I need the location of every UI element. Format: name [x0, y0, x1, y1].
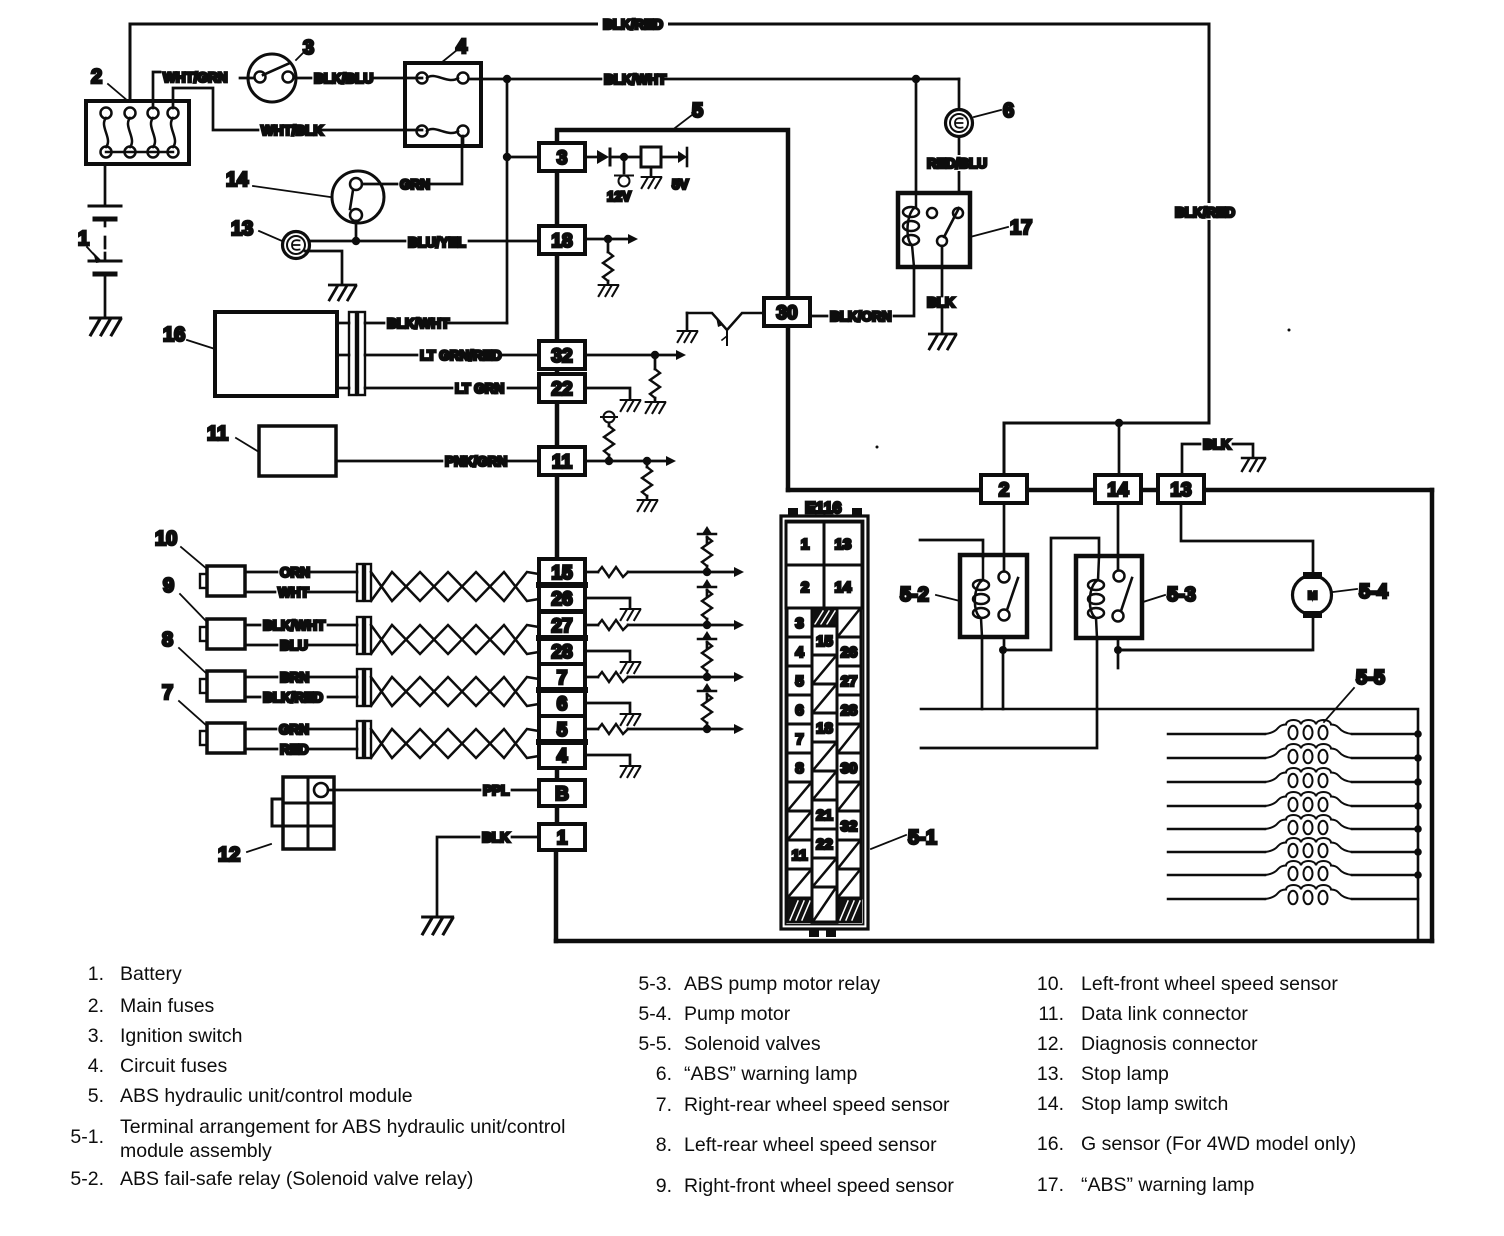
- svg-text:“ABS” warning lamp: “ABS” warning lamp: [1081, 1174, 1255, 1196]
- svg-text:14: 14: [835, 579, 852, 596]
- left-rear wheel speed sensor 8: [200, 671, 245, 701]
- label 14 with leader: [226, 169, 330, 197]
- label BLK/RED (right vertical wire): [1172, 203, 1238, 220]
- label 8 with leader: [162, 629, 207, 674]
- svg-text:6: 6: [1003, 100, 1014, 122]
- svg-text:WHT/BLK: WHT/BLK: [261, 123, 323, 138]
- svg-text:14: 14: [226, 169, 249, 191]
- inline connector (sensor 10): [357, 564, 371, 601]
- wire BLK/WHT main feed with junctions: [469, 75, 959, 83]
- svg-text:BLK: BLK: [1203, 437, 1231, 452]
- pin 22 (G sensor LT GRN): [539, 374, 585, 402]
- 5V output arrow: [661, 148, 687, 166]
- ABS fail-safe relay 5-2: [960, 555, 1027, 637]
- svg-text:5.: 5.: [88, 1085, 104, 1107]
- svg-text:6.: 6.: [656, 1063, 672, 1085]
- svg-text:BLK/RED: BLK/RED: [263, 690, 323, 705]
- wire GRN from switch 14 to circuit fuse: [362, 137, 462, 184]
- svg-text:11: 11: [552, 452, 573, 473]
- svg-text:3: 3: [557, 148, 568, 169]
- svg-text:BLK/WHT: BLK/WHT: [604, 72, 667, 87]
- svg-text:B: B: [555, 784, 569, 805]
- label 17 with leader: [970, 217, 1032, 239]
- svg-text:26: 26: [841, 644, 858, 661]
- svg-text:Right-rear wheel speed sensor: Right-rear wheel speed sensor: [684, 1094, 950, 1116]
- svg-text:14: 14: [1107, 480, 1129, 501]
- relay 5-3 switch output junction with stub: [1114, 638, 1311, 668]
- svg-text:5: 5: [795, 673, 803, 690]
- wire GRN (sensor 7 +): [245, 728, 357, 731]
- svg-text:Solenoid valves: Solenoid valves: [684, 1033, 821, 1055]
- svg-text:1: 1: [801, 536, 809, 553]
- pin pair 15/26 left-front wheel speed sensor input: [539, 559, 585, 611]
- label 5-3 with leader: [1143, 584, 1196, 606]
- svg-text:5-4: 5-4: [1359, 581, 1389, 603]
- label 11 with leader: [207, 423, 259, 452]
- wire pin 13 to pump motor: [1181, 505, 1313, 573]
- svg-text:7.: 7.: [656, 1094, 672, 1116]
- svg-text:BLK/WHT: BLK/WHT: [387, 316, 450, 331]
- svg-text:Circuit fuses: Circuit fuses: [120, 1055, 228, 1077]
- E116 cell col3 row 2 (26): [837, 637, 861, 666]
- E116 cell col3 row 1 (/): [837, 608, 861, 637]
- solenoid valve coil 4: [1168, 805, 1418, 808]
- stray scan dot: [876, 446, 879, 449]
- svg-text:ABS hydraulic unit/control mod: ABS hydraulic unit/control module: [120, 1085, 413, 1107]
- wire vertical feed to pin 3 and G sensor line: [503, 79, 539, 323]
- svg-text:3: 3: [795, 615, 803, 632]
- ground at pin 32 resistor: [646, 402, 666, 413]
- ground branch of stop lamp 13: [305, 251, 342, 284]
- E116 cell col1 row 6 (8): [787, 753, 812, 782]
- E116 cell col3 row 5 (/): [837, 724, 861, 753]
- svg-text:Data link connector: Data link connector: [1081, 1003, 1248, 1025]
- wire from switch 14 down to BLU/YEL node: [352, 221, 360, 245]
- ground return for pin 26: [585, 598, 630, 608]
- junction solenoid row 7: [1414, 871, 1422, 879]
- svg-text:8: 8: [162, 629, 173, 651]
- pin 3 (module IG feed): [539, 143, 585, 171]
- E116 cell col2 row 9 (/): [812, 858, 837, 887]
- pull-down resistor at pin 11: [646, 461, 649, 467]
- svg-text:M: M: [1308, 590, 1317, 602]
- svg-text:13.: 13.: [1037, 1063, 1064, 1085]
- inline connector (sensor 7): [357, 721, 371, 758]
- internal sensing resistor network for pins 15/26: [585, 571, 598, 574]
- svg-text:7: 7: [162, 682, 173, 704]
- wire BLK from pin 1 to ground: [437, 837, 539, 916]
- solenoid valve coil 8: [1168, 898, 1418, 901]
- label 1 with arrow leader: [78, 228, 103, 263]
- svg-text:WHT/GRN: WHT/GRN: [163, 70, 228, 85]
- svg-text:Right-front wheel speed sensor: Right-front wheel speed sensor: [684, 1175, 954, 1197]
- ignition switch 3: [240, 54, 296, 102]
- svg-text:12.: 12.: [1037, 1033, 1064, 1055]
- svg-text:13: 13: [231, 218, 253, 240]
- solenoid valve coil 5: [1168, 828, 1418, 831]
- junction solenoid row 5: [1414, 825, 1422, 833]
- relay 5-2 switch output junction: [999, 538, 1099, 709]
- ground at pin 18 resistor: [607, 281, 610, 284]
- pin 1 (module ground): [539, 824, 585, 850]
- pin 2 (fail-safe relay feed): [981, 475, 1027, 503]
- svg-text:9.: 9.: [656, 1175, 672, 1197]
- terminal arrangement E116 (5-1): [781, 500, 868, 937]
- wire WHT/GRN from fuse 3: [153, 72, 160, 101]
- wire BLK/WHT from G sensor: [337, 322, 507, 325]
- pin pair 27/28 right-front wheel speed sensor input: [539, 612, 585, 664]
- stop lamp switch 14: [332, 171, 384, 223]
- E116 cell col2 top hatch: [812, 608, 837, 626]
- svg-text:26: 26: [551, 589, 572, 610]
- label 5 with leader: [675, 100, 703, 128]
- svg-text:BLK/RED: BLK/RED: [1175, 205, 1235, 220]
- wire BLK/ORN pin 30 to ABS warning relay coil: [810, 267, 914, 316]
- twisted pair wires (sensor 9): [371, 625, 539, 654]
- ground symbol (pin 1 BLK wire): [423, 917, 453, 934]
- svg-text:4.: 4.: [88, 1055, 104, 1077]
- svg-text:12V: 12V: [607, 189, 631, 204]
- svg-text:Main fuses: Main fuses: [120, 995, 215, 1017]
- svg-text:5-2.: 5-2.: [70, 1168, 104, 1190]
- solenoid valve block bus: [921, 709, 1418, 941]
- solenoid valve coil 2: [1168, 757, 1418, 760]
- ground return for pin 28: [585, 651, 630, 661]
- svg-text:2: 2: [91, 66, 102, 88]
- solenoid valve coil 1: [1168, 733, 1418, 736]
- twisted pair wires (sensor 10): [371, 572, 539, 601]
- E116 cell col3 row 9 (/): [837, 840, 861, 869]
- svg-text:RED/BLU: RED/BLU: [927, 156, 987, 171]
- label 9 with leader: [163, 575, 207, 622]
- inline connector (sensor 8): [357, 669, 371, 706]
- E116 cell col1 row 5 (7): [787, 724, 812, 753]
- E116 cell col3 row 7 (/): [837, 782, 861, 811]
- E116 cell col2 row 10 (/): [812, 887, 837, 922]
- pin 22 internal wire to ground: [585, 388, 630, 399]
- svg-text:22: 22: [816, 836, 833, 853]
- ABS warning lamp relay 17: [898, 193, 970, 267]
- 12V supply tap node: [615, 157, 633, 187]
- internal sensing resistor network for pins 27/28: [585, 624, 598, 627]
- supply tap above pin 11 pull-up: [601, 412, 617, 427]
- wire BRN (sensor 8 +): [245, 676, 357, 679]
- pin 18 (stop lamp sw input): [539, 226, 585, 254]
- wire BLK/WHT (sensor 9 +): [245, 624, 357, 627]
- wire BLK with ground at pin 13: [1182, 444, 1253, 475]
- svg-text:Ignition switch: Ignition switch: [120, 1025, 242, 1047]
- E116 cell col3 row 10 (/): [837, 869, 861, 898]
- svg-text:27: 27: [551, 616, 572, 637]
- E116 cell col3 row 3 (27): [837, 666, 861, 695]
- svg-text:GRN: GRN: [279, 722, 309, 737]
- wire BLK/WHT branch down to relay 17: [915, 79, 918, 193]
- svg-text:ABS pump motor relay: ABS pump motor relay: [684, 973, 880, 995]
- svg-text:10: 10: [155, 528, 177, 550]
- E116 cell col1 row 8 (/): [787, 811, 812, 840]
- svg-text:Left-rear wheel speed sensor: Left-rear wheel speed sensor: [684, 1134, 937, 1156]
- svg-text:6: 6: [795, 702, 803, 719]
- svg-text:Pump motor: Pump motor: [684, 1003, 791, 1025]
- inline connector at G sensor: [349, 312, 365, 395]
- pump motor 5-4: [1293, 572, 1332, 618]
- label 5-1 with leader: [871, 827, 937, 849]
- svg-text:RED: RED: [280, 742, 309, 757]
- svg-text:28: 28: [841, 702, 858, 719]
- svg-text:1: 1: [557, 828, 568, 849]
- supply bar above resistor (7): [698, 631, 716, 639]
- svg-text:PNK/GRN: PNK/GRN: [445, 454, 507, 469]
- E116 cell col1 row 4 (6): [787, 695, 812, 724]
- wire to ABS warning lamp 6: [958, 79, 961, 193]
- E116 cell col2 row 6 (/): [812, 771, 837, 800]
- wire ORN (sensor 10 +): [245, 571, 357, 574]
- left-front wheel speed sensor 10: [200, 566, 245, 596]
- svg-text:“ABS” warning lamp: “ABS” warning lamp: [684, 1063, 858, 1085]
- wire BLK/BLU ignition to circuit fuses: [294, 77, 422, 80]
- svg-text:6: 6: [557, 694, 568, 715]
- stray scan dot: [1288, 329, 1291, 332]
- E116 cell col1 row 3 (5): [787, 666, 812, 695]
- svg-text:Stop lamp: Stop lamp: [1081, 1063, 1169, 1085]
- svg-text:11: 11: [207, 423, 228, 445]
- solenoid valve coil 3: [1168, 781, 1418, 784]
- svg-text:4: 4: [456, 36, 468, 58]
- label 12 with leader: [218, 844, 271, 866]
- E116 cell col3 row 8 (32): [837, 811, 861, 840]
- label RED/BLU: [925, 155, 987, 171]
- E116 cell col2 row 2 (/): [812, 655, 837, 684]
- pump motor return wire: [1122, 618, 1313, 650]
- svg-text:5: 5: [692, 100, 703, 122]
- svg-text:2.: 2.: [88, 995, 104, 1017]
- svg-text:5-1: 5-1: [908, 827, 937, 849]
- svg-text:3: 3: [303, 37, 314, 59]
- svg-text:27: 27: [841, 673, 858, 690]
- svg-text:4: 4: [557, 746, 568, 767]
- svg-text:4: 4: [795, 644, 804, 661]
- data link connector 11 box: [259, 426, 336, 476]
- svg-text:3.: 3.: [88, 1025, 104, 1047]
- svg-text:17: 17: [1010, 217, 1032, 239]
- svg-text:BLK/WHT: BLK/WHT: [263, 618, 326, 633]
- solenoid valve coil 6: [1168, 851, 1418, 854]
- svg-text:Stop lamp switch: Stop lamp switch: [1081, 1093, 1228, 1115]
- junction solenoid row 1: [1414, 730, 1422, 738]
- svg-text:BLU/YEL: BLU/YEL: [408, 235, 466, 250]
- svg-text:5-2: 5-2: [900, 584, 929, 606]
- E116 cell col3 row 11 (H): [837, 898, 861, 922]
- E116 cell col2 row 5 (/): [812, 742, 837, 771]
- ground at transistor emitter: [678, 331, 698, 342]
- svg-text:BRN: BRN: [280, 670, 309, 685]
- svg-text:11.: 11.: [1038, 1003, 1064, 1025]
- wire pin 14 down to pump motor relay switch: [1117, 505, 1120, 570]
- wire LT GRN/RED from G sensor to pin 32: [337, 354, 539, 357]
- svg-text:11: 11: [792, 847, 808, 864]
- svg-text:18: 18: [816, 720, 833, 737]
- svg-text:21: 21: [816, 807, 833, 824]
- wire LT GRN from G sensor to pin 22: [337, 387, 539, 390]
- svg-text:G sensor (For 4WD model only): G sensor (For 4WD model only): [1081, 1133, 1356, 1155]
- pin B (diagnosis PPL): [539, 780, 585, 806]
- svg-text:ABS fail-safe relay (Solenoid: ABS fail-safe relay (Solenoid valve rela…: [120, 1168, 473, 1190]
- label 10 with leader: [155, 528, 207, 569]
- svg-text:17.: 17.: [1037, 1174, 1064, 1196]
- svg-text:9: 9: [163, 575, 174, 597]
- svg-text:32: 32: [551, 346, 572, 367]
- coil feed wire for relay 5-2: [920, 540, 983, 557]
- svg-text:LT GRN: LT GRN: [455, 381, 504, 396]
- E116 cell col1 row 10 (/): [787, 869, 812, 898]
- diode at pin 3 output: [585, 149, 641, 165]
- pin 18 internal node with resistor to ground: [585, 234, 638, 252]
- svg-text:Left-front wheel speed sensor: Left-front wheel speed sensor: [1081, 973, 1338, 995]
- E116 cell col1 row 11 (H): [787, 898, 812, 922]
- E116 cell col2 row 1 (15): [812, 626, 837, 655]
- svg-text:32: 32: [841, 818, 858, 835]
- inline connector (sensor 9): [357, 617, 371, 654]
- svg-text:5V: 5V: [672, 177, 689, 192]
- svg-text:5-3.: 5-3.: [638, 973, 672, 995]
- E116 cell col2 row 7 (21): [812, 800, 837, 829]
- svg-text:LT GRN/RED: LT GRN/RED: [420, 348, 502, 363]
- svg-text:5-1.: 5-1.: [70, 1126, 104, 1148]
- label 16 with leader: [163, 324, 215, 349]
- solenoid valve coil 7: [1168, 874, 1418, 877]
- svg-text:13: 13: [835, 536, 852, 553]
- wire pin 1 down to module bottom edge: [555, 850, 558, 941]
- svg-text:BLK/ORN: BLK/ORN: [830, 309, 892, 324]
- ABS pump motor relay 5-3: [1076, 556, 1142, 638]
- svg-text:BLK/RED: BLK/RED: [603, 17, 663, 32]
- label 6 with leader: [974, 100, 1014, 122]
- svg-text:7: 7: [795, 731, 803, 748]
- svg-text:BLK: BLK: [482, 830, 510, 845]
- ground symbol (pin 13 BLK): [1242, 458, 1265, 471]
- regulator box inside module: [641, 147, 661, 176]
- label 5-5 with leader: [1324, 667, 1385, 722]
- wire BLU/YEL from stop lamp to module pin 18: [309, 240, 539, 243]
- E116 cell col1 row 1 (3): [787, 608, 812, 637]
- ground below battery: [91, 318, 121, 335]
- svg-text:PPL: PPL: [483, 783, 509, 798]
- pin 11 internal nodes with pull-up and pull-down resistors: [585, 456, 676, 466]
- legend left column: [70, 963, 565, 1190]
- circuit fuses box 4: [405, 63, 481, 146]
- wire BLK/RED top bus from main fuses to right side: [130, 16, 1209, 475]
- svg-text:module assembly: module assembly: [120, 1140, 272, 1162]
- ground symbol (stop lamp): [329, 285, 355, 300]
- ground return for pin 4: [585, 755, 630, 765]
- legend middle column: [638, 973, 954, 1197]
- wire BLK from relay 17 to ground: [941, 246, 944, 333]
- internal sensing resistor network for pins 7/6: [585, 676, 598, 679]
- svg-text:22: 22: [551, 379, 572, 400]
- pin 32 (G sensor LT GRN/RED): [539, 341, 585, 369]
- svg-text:10.: 10.: [1037, 973, 1064, 995]
- svg-text:16: 16: [163, 324, 185, 346]
- svg-text:5-4.: 5-4.: [638, 1003, 672, 1025]
- legend right column: [1037, 973, 1356, 1196]
- svg-text:5-5: 5-5: [1356, 667, 1385, 689]
- label 5-2 with leader: [900, 584, 960, 606]
- pin pair 5/4 right-rear wheel speed sensor input: [539, 716, 585, 768]
- junction solenoid row 4: [1414, 802, 1422, 810]
- wire PNK/GRN data link to pin 11: [336, 460, 539, 463]
- pin 13 (motor feed): [1158, 475, 1204, 503]
- twisted pair wires (sensor 7): [371, 729, 539, 758]
- main fuses box 2: [86, 101, 189, 164]
- ABS hydraulic unit/control module 5 outline: [556, 130, 1432, 941]
- right-rear wheel speed sensor 7: [200, 723, 245, 753]
- svg-text:13: 13: [1170, 480, 1191, 501]
- svg-text:5-3: 5-3: [1167, 584, 1196, 606]
- wire WHT/BLK from fuse 4 to circuit fuse box: [173, 88, 422, 130]
- wire PPL diagnosis connector to pin B: [328, 789, 539, 792]
- label 7 with leader: [162, 682, 207, 726]
- ground at pin 11 resistor: [638, 500, 658, 511]
- svg-text:2: 2: [999, 480, 1010, 501]
- ground at pin 22: [621, 400, 641, 411]
- svg-text:30: 30: [841, 760, 858, 777]
- svg-text:BLK/BLU: BLK/BLU: [314, 71, 373, 86]
- svg-text:2: 2: [801, 579, 809, 596]
- svg-text:5-5.: 5-5.: [638, 1033, 672, 1055]
- svg-text:BLK: BLK: [927, 295, 955, 310]
- stop lamp 13: [283, 232, 310, 259]
- relay 5-3 coil return wire: [921, 638, 1097, 748]
- supply bar above resistor (27): [698, 579, 716, 587]
- pin 32 internal node, resistor to ground, arrow: [585, 350, 686, 369]
- wire BLK/RED (sensor 8 -): [245, 696, 357, 699]
- junction solenoid row 6: [1414, 848, 1422, 856]
- svg-text:12: 12: [218, 844, 240, 866]
- svg-text:14.: 14.: [1037, 1093, 1064, 1115]
- wire pin 2 down to fail-safe relay switch: [1003, 505, 1006, 571]
- svg-text:18: 18: [551, 231, 572, 252]
- right-front wheel speed sensor 9: [200, 619, 245, 649]
- svg-text:15: 15: [816, 633, 833, 650]
- svg-text:Battery: Battery: [120, 963, 182, 985]
- wire WHT (sensor 10 -): [245, 591, 357, 594]
- svg-text:ORN: ORN: [280, 565, 310, 580]
- svg-text:GRN: GRN: [400, 177, 430, 192]
- svg-text:8: 8: [795, 760, 803, 777]
- twisted pair wires (sensor 8): [371, 677, 539, 706]
- E116 cell col2 row 3 (/): [812, 684, 837, 713]
- ABS warning lamp 6: [946, 110, 973, 137]
- label 3 with leader: [296, 37, 314, 60]
- svg-text:1.: 1.: [88, 963, 104, 985]
- svg-text:BLU: BLU: [280, 638, 308, 653]
- svg-text:Diagnosis connector: Diagnosis connector: [1081, 1033, 1258, 1055]
- pin pair 7/6 left-rear wheel speed sensor input: [539, 664, 585, 716]
- E116 terminal cells: [786, 522, 824, 565]
- pin 11 (data link): [539, 447, 585, 475]
- pin 14 (pump relay feed): [1095, 475, 1141, 503]
- ground return for pin 6: [585, 703, 630, 713]
- pin 30 (warning lamp driver): [764, 298, 810, 326]
- relay 5-2 coil return to solenoid bus: [981, 637, 984, 709]
- wire BLU (sensor 9 -): [245, 644, 357, 647]
- svg-text:28: 28: [551, 642, 572, 663]
- ground symbol (relay 17): [929, 334, 955, 349]
- E116 cell col2 row 4 (18): [812, 713, 837, 742]
- supply bar above resistor (15): [698, 526, 716, 534]
- label 4 with leader: [441, 36, 468, 63]
- E116 cell col1 row 9 (11): [787, 840, 812, 869]
